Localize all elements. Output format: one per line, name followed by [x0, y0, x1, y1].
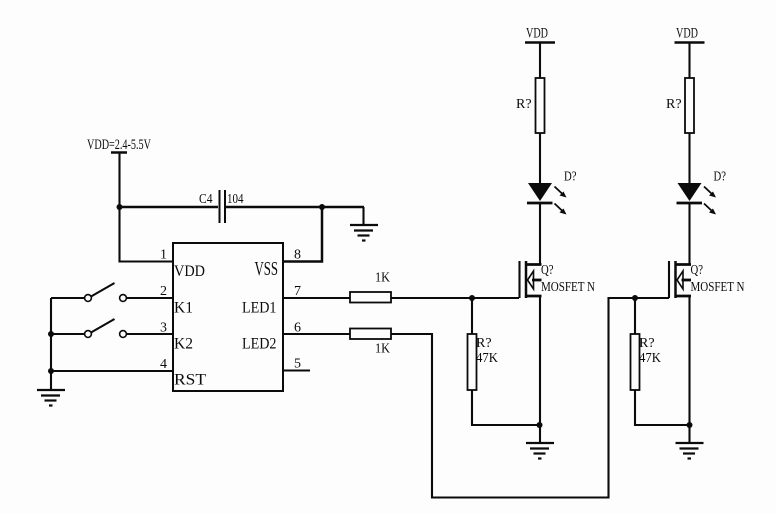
wire source1 down — [539, 296, 541, 443]
LED D? first: arrows — [555, 187, 567, 215]
wire cap rail left — [120, 206, 219, 209]
switch S1 blade — [91, 283, 115, 297]
svg-text:K1: K1 — [174, 300, 193, 317]
svg-text:D?: D? — [714, 170, 727, 185]
gate bar Q2 — [668, 261, 670, 298]
wire source2 down — [688, 296, 690, 443]
pin 7 wire — [283, 297, 350, 299]
power bar VDD supply — [111, 151, 127, 154]
switch S1 wire left — [51, 297, 85, 299]
capacitor C4 plate right — [224, 190, 226, 223]
svg-text:VSS: VSS — [255, 259, 279, 280]
svg-text:4: 4 — [160, 357, 167, 372]
resistor R? rail1 body — [536, 78, 545, 133]
LED D? second: cathode bar — [677, 202, 703, 205]
pin 3 wire — [127, 333, 174, 335]
resistor 1K upper body — [350, 292, 391, 303]
mosfet Q? first — [520, 261, 542, 298]
svg-text:1K: 1K — [375, 342, 390, 357]
wire VSS pin8 vertical — [283, 207, 322, 262]
svg-text:5: 5 — [294, 357, 301, 372]
LED D? first: cathode bar — [527, 202, 553, 205]
wire VDD down to pin1 rail — [120, 153, 174, 262]
pin 2 wire — [127, 297, 174, 299]
bulk arrow Q2 — [677, 271, 683, 289]
svg-text:K2: K2 — [174, 336, 193, 353]
node junction RST rail — [48, 368, 54, 374]
ground symbol mosfet2 — [676, 443, 704, 459]
svg-text:MOSFET N: MOSFET N — [691, 279, 745, 294]
svg-text:104: 104 — [227, 192, 244, 207]
wire VDD2 to R — [688, 43, 690, 78]
resistor R? 47K first: wire top — [471, 298, 473, 334]
svg-text:1: 1 — [160, 248, 167, 263]
node junction source2 — [687, 422, 693, 428]
node junction source1 — [537, 422, 543, 428]
svg-text:47K: 47K — [639, 351, 661, 366]
channel bar Q2 — [674, 261, 677, 298]
resistor R? 47K second: wire top — [634, 298, 636, 334]
bulk bar Q1 — [532, 279, 542, 282]
wire R47K second bottom — [635, 390, 690, 425]
switch S2 contact left — [85, 331, 92, 338]
power bar VDD rail2 — [675, 41, 705, 44]
switch S2 contact right — [120, 331, 127, 338]
channel bar Q1 — [525, 261, 528, 298]
IC U1 body — [173, 243, 283, 391]
node junction gate1/R47K — [469, 295, 475, 301]
svg-text:R?: R? — [639, 336, 655, 351]
wire pin6 to corner — [391, 333, 433, 335]
capacitor C4 plate left — [219, 190, 221, 223]
resistor R? 47K second body — [631, 334, 640, 390]
switch S2 blade — [91, 319, 115, 333]
svg-text:2: 2 — [160, 284, 167, 299]
resistor R? 47K first body — [468, 334, 477, 390]
svg-text:LED2: LED2 — [242, 336, 277, 353]
wire cap rail right — [226, 206, 364, 209]
wire R47K first bottom — [472, 390, 540, 425]
svg-text:VDD: VDD — [676, 26, 698, 42]
ground symbol bottom left — [37, 390, 65, 406]
svg-text:R?: R? — [476, 336, 492, 351]
svg-text:R?: R? — [516, 97, 532, 112]
svg-text:VDD: VDD — [526, 26, 548, 42]
svg-text:Q?: Q? — [691, 262, 704, 277]
pin 4 wire RST — [51, 370, 173, 372]
switch S2 wire left — [51, 333, 85, 335]
gate bar Q1 — [518, 261, 520, 298]
switch S1 contact right — [120, 295, 127, 302]
ground symbol mosfet1 — [526, 443, 554, 459]
svg-text:VDD=2.4-5.5V: VDD=2.4-5.5V — [87, 137, 151, 153]
wire to ground right of cap — [362, 207, 364, 225]
wire long route down — [432, 298, 669, 498]
pin 5 stub wire — [283, 369, 310, 371]
svg-text:D?: D? — [564, 170, 577, 185]
svg-text:LED1: LED1 — [242, 300, 277, 317]
wire switch left rail — [50, 298, 52, 390]
node junction VDD/C4 — [117, 204, 123, 210]
node junction K2 rail — [48, 331, 54, 337]
resistor R? rail2 body — [685, 78, 694, 133]
source bar Q1 — [525, 295, 542, 298]
svg-text:RST: RST — [174, 372, 207, 389]
switch S1 contact left — [85, 295, 92, 302]
wire VDD1 to R — [539, 43, 541, 78]
wire LED2 to mosfet drain — [688, 204, 690, 265]
pin 6 wire — [283, 333, 350, 335]
ground symbol right of cap — [350, 225, 378, 241]
LED D? first: triangle — [528, 183, 552, 201]
drain bar Q2 — [675, 263, 692, 266]
bulk bar Q2 — [682, 279, 692, 282]
svg-text:C4: C4 — [199, 192, 213, 207]
source bar Q2 — [675, 295, 692, 298]
wire LED1 to mosfet drain — [539, 204, 541, 265]
power bar VDD rail1 — [525, 41, 555, 44]
svg-text:VDD: VDD — [174, 263, 205, 280]
svg-text:R?: R? — [666, 97, 682, 112]
wire pin7 to gate — [391, 297, 519, 299]
svg-text:7: 7 — [294, 284, 301, 299]
svg-text:Q?: Q? — [541, 262, 554, 277]
drain bar Q1 — [525, 263, 542, 266]
svg-text:1K: 1K — [375, 271, 390, 286]
svg-text:8: 8 — [294, 248, 301, 263]
bulk arrow Q1 — [528, 271, 534, 289]
node junction VSS rail — [319, 204, 325, 210]
wire R to LED2 — [688, 133, 690, 183]
svg-text:47K: 47K — [476, 351, 498, 366]
LED D? second: arrows — [704, 187, 716, 215]
LED D? second: triangle — [678, 183, 702, 201]
resistor 1K lower body — [350, 329, 391, 340]
wire R to LED1 — [539, 133, 541, 183]
svg-text:MOSFET N: MOSFET N — [541, 279, 595, 294]
mosfet Q? second — [669, 261, 691, 298]
node junction gate2/R47K — [632, 295, 638, 301]
